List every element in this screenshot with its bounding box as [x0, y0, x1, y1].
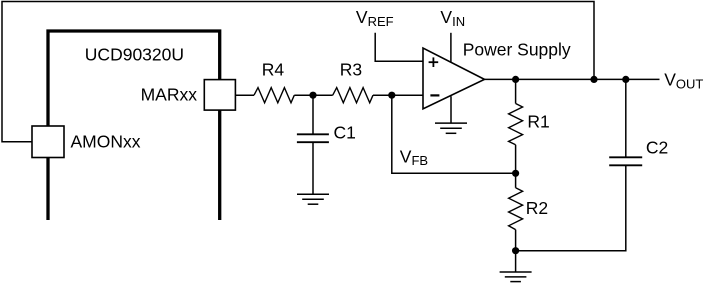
op-amp minus pin marker	[430, 94, 439, 96]
wire R2 node to C2 bottom	[516, 165, 626, 250]
resistor R2	[509, 188, 523, 230]
pin MARxx	[204, 80, 235, 111]
wire R3 to op-amp inverting input	[373, 94, 423, 96]
wire op-amp to ground	[450, 96, 452, 123]
node D (output / sense rail junction)	[590, 76, 597, 83]
capacitor C2	[609, 157, 642, 165]
svg-text:R1: R1	[527, 112, 549, 132]
svg-text:R2: R2	[526, 198, 548, 218]
wire MARxx to R4	[236, 94, 255, 96]
svg-text:VREF: VREF	[356, 7, 394, 29]
svg-text:R4: R4	[262, 60, 285, 80]
svg-text:VIN: VIN	[440, 7, 465, 29]
resistor R1	[509, 104, 523, 145]
wire R4 to node A	[294, 94, 332, 96]
resistor R4	[254, 88, 294, 103]
ground (R2)	[500, 272, 532, 282]
svg-text:VFB: VFB	[400, 147, 428, 169]
ground (C1)	[297, 194, 329, 204]
wire R2 bottom lead	[515, 230, 517, 251]
capacitor C1	[297, 134, 329, 142]
svg-text:VOUT: VOUT	[664, 70, 703, 92]
node A (R4/R3/C1 junction)	[309, 92, 316, 99]
wire R2 top lead	[515, 173, 517, 188]
node C (output / R1 junction)	[512, 76, 519, 83]
wire R1 top lead	[515, 79, 517, 103]
resistor R3	[333, 88, 373, 103]
op-amp U1	[423, 48, 485, 109]
pin AMONxx	[32, 126, 64, 158]
ground (op-amp)	[435, 123, 467, 133]
svg-text:R3: R3	[340, 60, 362, 80]
node F (R1/R2/VFB junction)	[512, 170, 519, 177]
node G (R2/C2 ground junction)	[512, 247, 519, 254]
wire VIN to op-amp top	[450, 33, 452, 63]
wire C1 top lead	[312, 95, 314, 134]
node E (output / C2 junction)	[622, 76, 629, 83]
wire R2 to ground	[515, 251, 517, 272]
wire op-amp output to VOUT	[485, 78, 660, 80]
wire R1 bottom lead	[515, 145, 517, 174]
op-amp plus pin marker	[429, 57, 439, 67]
wire VREF to op-amp non-inverting input	[375, 33, 422, 61]
IC U1 UCD90320U outline	[48, 31, 220, 220]
svg-text:C1: C1	[334, 123, 356, 143]
wire AMONxx feedback rail to VOUT node	[2, 2, 594, 142]
node B (inverting input / VFB junction)	[388, 92, 395, 99]
svg-text:C2: C2	[646, 138, 668, 158]
wire C2 top lead	[625, 79, 627, 157]
svg-text:Power Supply: Power Supply	[463, 40, 571, 60]
svg-text:AMONxx: AMONxx	[71, 132, 141, 152]
wire VFB feedback	[392, 95, 516, 173]
svg-text:UCD90320U: UCD90320U	[85, 45, 184, 65]
svg-text:MARxx: MARxx	[141, 84, 198, 104]
wire C1 to ground	[312, 142, 314, 194]
